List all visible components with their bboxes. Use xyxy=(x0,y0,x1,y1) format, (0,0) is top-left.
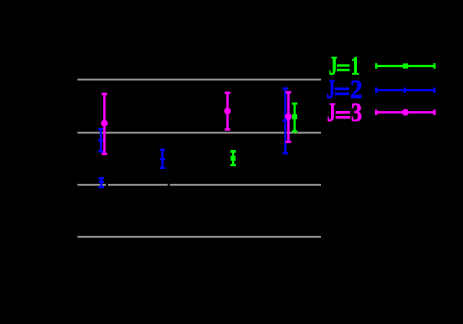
J=2 data point 1 (blue, column 1 upper) xyxy=(98,129,103,152)
legend label J=1 xyxy=(329,51,360,81)
legend sample J=1 (green) xyxy=(376,63,434,69)
experimental level line 3 segment b xyxy=(108,184,168,186)
svg-text:J: J xyxy=(327,97,336,127)
J=3 data point 2 (magenta, column 3) xyxy=(225,93,231,130)
experimental level line 3 segment a xyxy=(78,184,106,186)
J=3 data point 1 (magenta, column 1) xyxy=(102,94,108,154)
experimental level line 3 segment c xyxy=(170,184,321,186)
svg-text:3: 3 xyxy=(351,100,362,128)
experimental level line 2 xyxy=(78,132,322,134)
J=3 data point 3 (magenta, column 4) xyxy=(286,92,292,142)
J=2 data point 2 (blue, column 1 lower) xyxy=(99,178,104,187)
experimental level line 4 xyxy=(78,236,322,238)
J=2 data point 4 (blue, column 4) xyxy=(283,89,288,154)
legend sample J=2 (blue) xyxy=(376,87,434,93)
legend label J=2 xyxy=(327,74,363,104)
experimental level line 1 xyxy=(78,79,322,81)
legend label J=3 xyxy=(327,97,362,127)
J=1 data point 2 (green, column 4) xyxy=(292,104,297,132)
J=2 data point 3 (blue, column 2) xyxy=(160,150,165,168)
legend sample J=3 (magenta) xyxy=(376,110,434,116)
J=1 data point 1 (green, column 3) xyxy=(230,151,235,165)
